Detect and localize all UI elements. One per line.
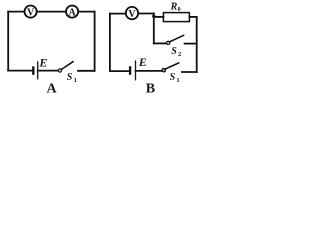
wire: circuit A top, ammeter to right corner — [78, 11, 94, 13]
switch S1 (circuit A) pivot — [58, 69, 61, 72]
switch S1 (circuit A) lever — [61, 62, 73, 70]
switch S1 (circuit B) pivot — [162, 69, 165, 72]
svg-text:V: V — [128, 9, 136, 20]
wire: circuit A bottom left — [8, 70, 32, 72]
svg-text:S: S — [171, 46, 177, 57]
wire: circuit A bottom, battery to switch pivot — [38, 70, 58, 72]
wire: circuit A left side — [7, 12, 9, 71]
wire: between voltmeter and ammeter (circuit A) — [37, 11, 66, 13]
svg-text:V: V — [27, 7, 35, 18]
wire: S2 branch right — [185, 43, 197, 45]
battery E (circuit B) long plate — [135, 60, 137, 80]
wire: circuit B bottom, battery to switch pivot — [136, 70, 162, 72]
battery E (circuit B) short plate — [129, 66, 131, 75]
svg-text:2: 2 — [178, 51, 181, 58]
wire: resistor branch left — [154, 16, 164, 18]
svg-text:1: 1 — [74, 77, 77, 84]
svg-text:S: S — [67, 72, 73, 83]
svg-text:A: A — [68, 7, 76, 18]
battery E (circuit A) long plate — [37, 61, 39, 79]
svg-text:0: 0 — [178, 7, 181, 13]
svg-text:E: E — [38, 55, 47, 69]
switch S2 (circuit B) lever — [170, 35, 184, 42]
svg-text:B: B — [146, 82, 155, 96]
wire: resistor branch right — [189, 16, 196, 18]
switch S2 (circuit B) pivot — [167, 41, 170, 44]
switch S1 (circuit B) lever — [165, 63, 179, 69]
svg-text:E: E — [138, 55, 147, 69]
voltmeter V (circuit A) — [25, 6, 37, 18]
svg-text:R: R — [170, 2, 178, 13]
svg-text:S: S — [170, 72, 176, 83]
wire: circuit A right side — [94, 12, 96, 71]
wire: S2 branch left — [154, 42, 166, 44]
wire: circuit B right side — [196, 17, 198, 72]
wire: circuit B bottom, switch to right corner — [182, 71, 197, 73]
voltmeter V (circuit B) — [126, 7, 138, 19]
wire: circuit B bottom left — [110, 70, 129, 72]
resistor R0 (circuit B) — [163, 13, 189, 22]
wire: circuit A bottom, right corner to switch — [78, 70, 95, 72]
ammeter A (circuit A) — [66, 6, 78, 18]
svg-text:A: A — [46, 81, 57, 96]
wire: circuit B left side — [109, 14, 111, 72]
wire: circuit B top, corner to voltmeter — [110, 13, 126, 15]
svg-text:1: 1 — [176, 77, 179, 84]
junction node (circuit B, top branch split) — [152, 15, 155, 18]
battery E (circuit A) short plate — [32, 66, 34, 74]
wire: branch vertical (junction down to S2 branch) — [153, 14, 155, 44]
wire: circuit A top, corner to voltmeter — [8, 11, 24, 13]
wire: circuit B top, voltmeter to junction — [138, 13, 154, 15]
